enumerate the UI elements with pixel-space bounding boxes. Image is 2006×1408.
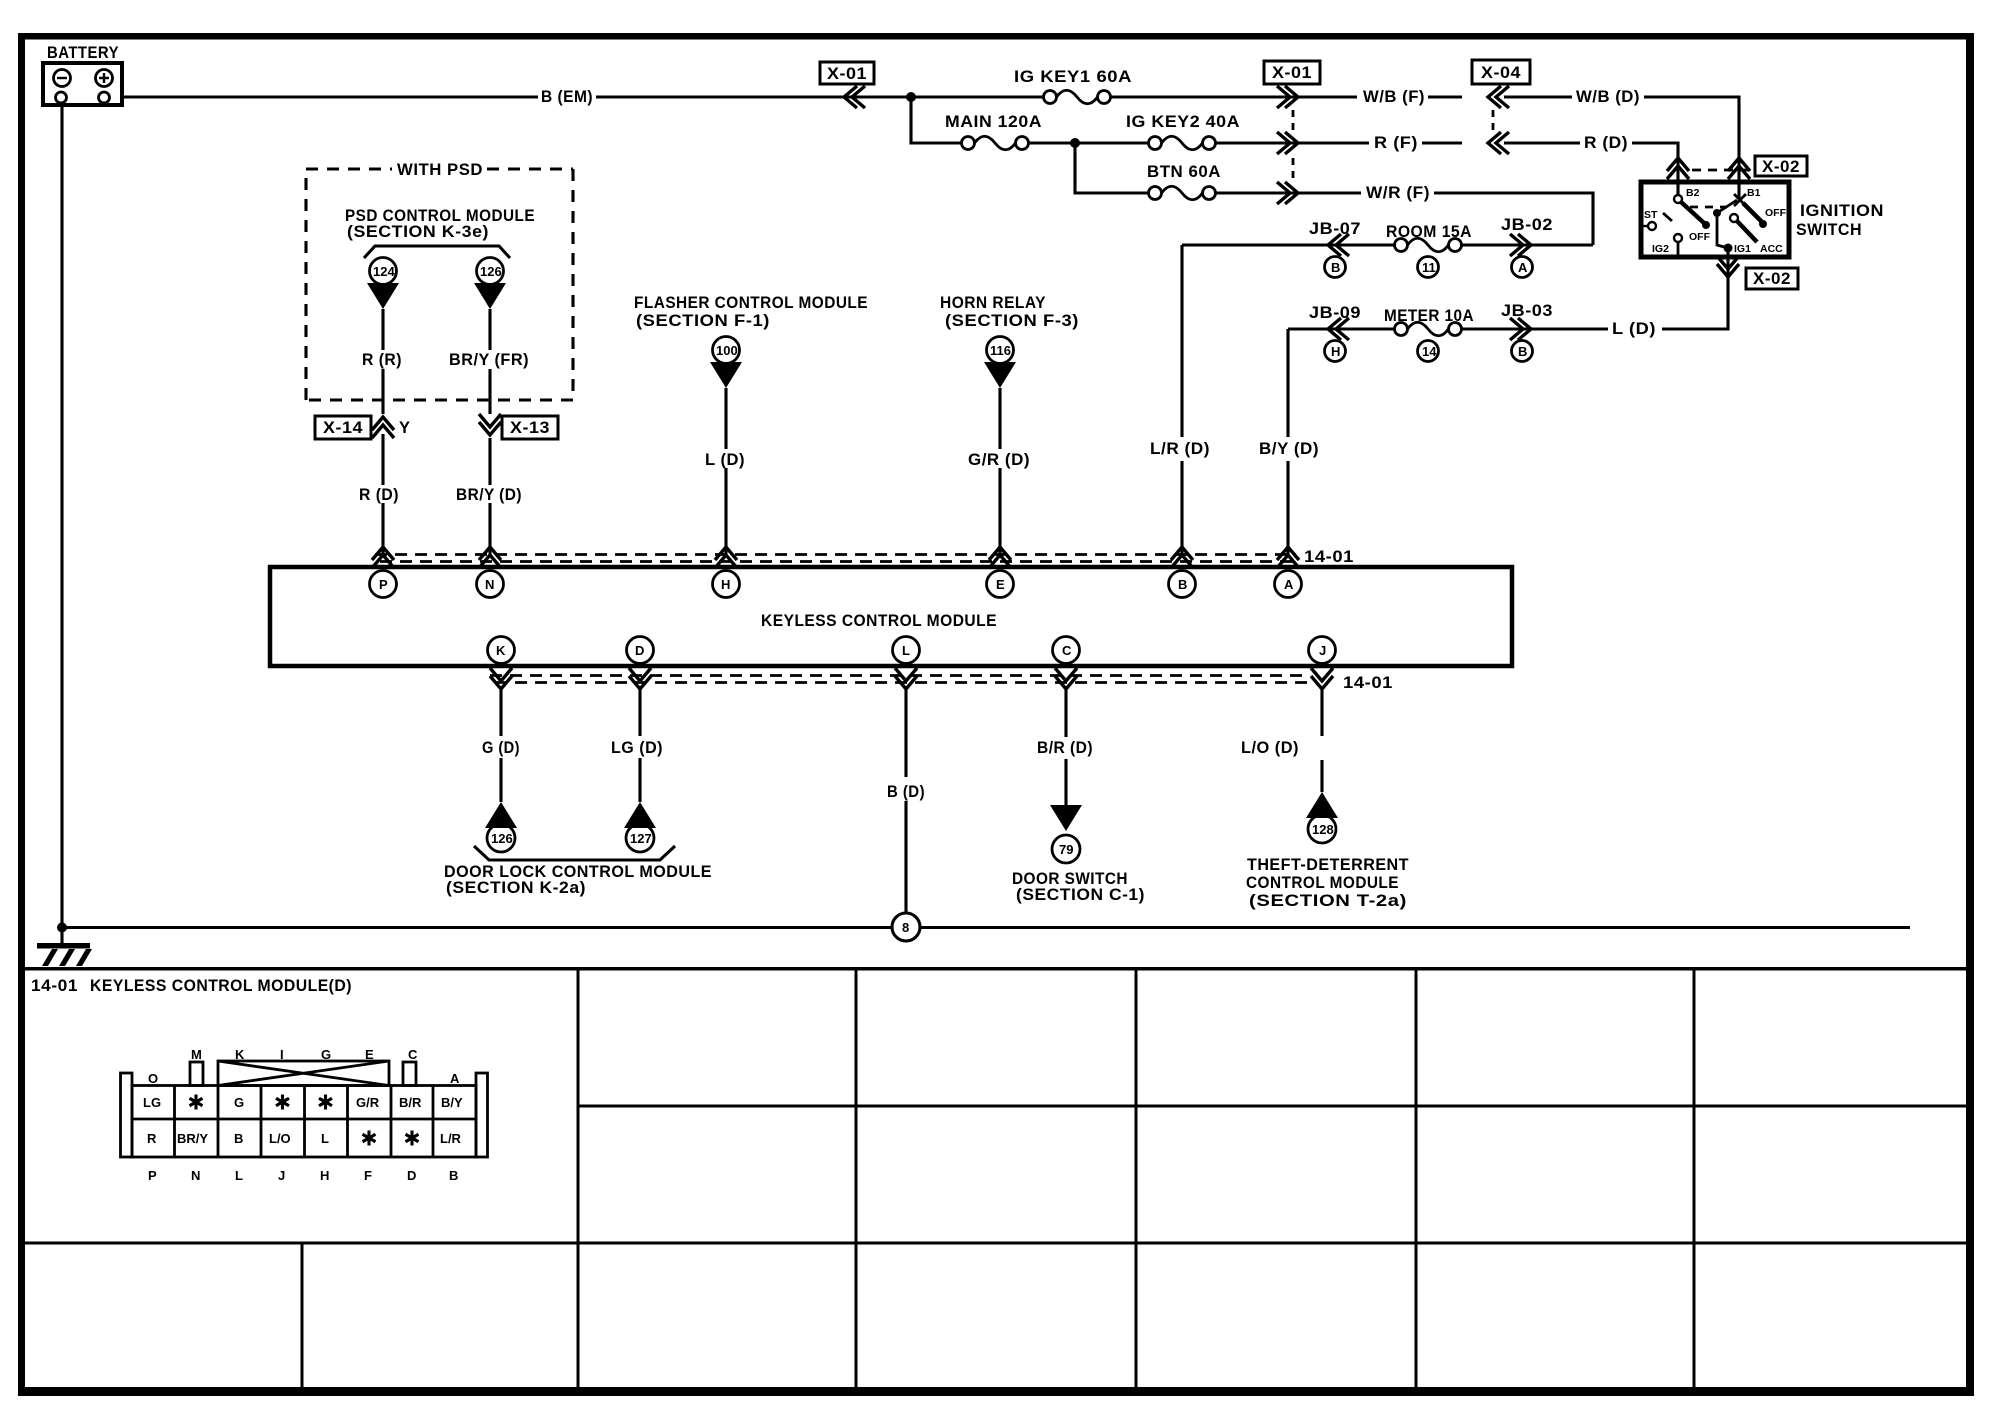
svg-text:R (F): R (F): [1374, 134, 1418, 152]
svg-text:X-04: X-04: [1481, 64, 1521, 82]
svg-text:B: B: [1331, 260, 1340, 275]
svg-text:E: E: [996, 577, 1005, 592]
svg-text:N: N: [485, 577, 494, 592]
svg-text:J: J: [278, 1168, 285, 1183]
svg-text:SWITCH: SWITCH: [1796, 221, 1862, 239]
svg-text:BATTERY: BATTERY: [47, 44, 119, 62]
pin C: [1053, 637, 1080, 664]
svg-text:IG KEY1 60A: IG KEY1 60A: [1014, 68, 1132, 86]
pin J: [1309, 637, 1336, 664]
fuse MAIN 120A: [941, 113, 1075, 151]
connector 14-01 chevron pin J: [1311, 668, 1333, 689]
svg-text:(SECTION F-3): (SECTION F-3): [945, 312, 1079, 330]
svg-text:K: K: [496, 643, 506, 658]
svg-text:B: B: [1178, 577, 1187, 592]
svg-text:W/B (F): W/B (F): [1363, 88, 1425, 106]
svg-text:W/R (F): W/R (F): [1366, 184, 1430, 202]
svg-text:11: 11: [1422, 260, 1436, 275]
pin D: [627, 637, 654, 664]
svg-text:IG2: IG2: [1652, 243, 1669, 255]
svg-text:JB-09: JB-09: [1309, 304, 1361, 322]
svg-text:JB-07: JB-07: [1309, 220, 1361, 238]
connector 14-01 chevron pin E: [989, 547, 1011, 568]
svg-text:BTN 60A: BTN 60A: [1147, 163, 1221, 181]
wire R(D) to keyless pin P: [381, 434, 384, 556]
connector 14-01 lower dashed line: [490, 676, 1310, 683]
pin H: [713, 571, 740, 598]
svg-text:B/R (D): B/R (D): [1037, 739, 1093, 757]
svg-text:JB-02: JB-02: [1501, 216, 1553, 234]
junction JB-07: [1309, 220, 1361, 278]
connector pin letters (top): [148, 1047, 460, 1086]
connector 14-01 chevron pin D: [629, 668, 651, 689]
connector 14-01 chevron pin L: [895, 668, 917, 689]
connector X-01 (engine side): [820, 62, 874, 108]
svg-text:G/R: G/R: [356, 1095, 380, 1110]
svg-text:P: P: [379, 577, 388, 592]
svg-text:(SECTION K-3e): (SECTION K-3e): [347, 223, 489, 241]
svg-text:H: H: [320, 1168, 329, 1183]
svg-text:L: L: [321, 1131, 329, 1146]
connector X-01 (dash side) with 3-wire chevrons: [1264, 61, 1320, 204]
svg-text:B (D): B (D): [887, 783, 925, 801]
connector X-14: [315, 416, 411, 439]
pin B: [1169, 571, 1196, 598]
wire G/R(D) to keyless pin E: [998, 388, 1001, 556]
svg-text:JB-03: JB-03: [1501, 302, 1553, 320]
svg-text:14-01: 14-01: [1343, 674, 1393, 692]
svg-text:C: C: [408, 1047, 418, 1062]
pin A: [1275, 571, 1302, 598]
svg-text:R (D): R (D): [359, 486, 399, 504]
svg-text:OFF: OFF: [1689, 231, 1711, 243]
svg-text:LG: LG: [143, 1095, 161, 1110]
arrow to 79: [1050, 805, 1082, 831]
svg-text:KEYLESS CONTROL MODULE(D): KEYLESS CONTROL MODULE(D): [90, 977, 352, 995]
svg-text:A: A: [1284, 577, 1294, 592]
connector X-04: [1472, 60, 1580, 154]
svg-text:K: K: [235, 1047, 245, 1062]
wire G(D) from pin K to door lock module: [499, 688, 502, 802]
junction JB-03: [1501, 302, 1553, 362]
connector pin letters (bottom): [148, 1168, 458, 1183]
keyless control module box: [270, 567, 1512, 666]
svg-text:79: 79: [1059, 842, 1073, 857]
wire R(D) to ignition B2: [1632, 143, 1678, 196]
svg-text:B: B: [449, 1168, 458, 1183]
svg-text:F: F: [364, 1168, 372, 1183]
svg-text:J: J: [1319, 643, 1326, 658]
svg-text:8: 8: [902, 920, 909, 935]
PSD control module P-06: [345, 207, 535, 309]
svg-text:MAIN 120A: MAIN 120A: [945, 113, 1042, 131]
svg-text:BR/Y: BR/Y: [177, 1131, 208, 1146]
page ref circle 126 (door lock): [487, 824, 515, 852]
pin L: [893, 637, 920, 664]
svg-text:L/O: L/O: [269, 1131, 291, 1146]
fuse METER 10A: [1384, 307, 1474, 362]
svg-text:BR/Y (FR): BR/Y (FR): [449, 351, 529, 369]
horn relay: [940, 294, 1079, 388]
wire W/B(D) to ignition B1: [1644, 97, 1739, 199]
svg-text:Y: Y: [399, 419, 411, 437]
svg-text:L: L: [235, 1168, 243, 1183]
connector pinout 14-01 drawing: [121, 1061, 488, 1157]
arrow from 116: [984, 362, 1016, 388]
connector 14-01 chevron pin N: [479, 547, 501, 568]
svg-text:X-02: X-02: [1762, 158, 1800, 176]
svg-text:100: 100: [716, 343, 738, 358]
svg-text:P: P: [148, 1168, 157, 1183]
svg-text:W/B (D): W/B (D): [1576, 88, 1640, 106]
svg-text:IG KEY2 40A: IG KEY2 40A: [1126, 113, 1240, 131]
svg-text:R (R): R (R): [362, 351, 402, 369]
junction JB-02: [1501, 216, 1553, 278]
svg-text:B/Y (D): B/Y (D): [1259, 440, 1319, 458]
wire L/O(D) from pin J to theft deterrent: [1320, 688, 1323, 792]
svg-text:H: H: [1331, 344, 1340, 359]
svg-text:N: N: [191, 1168, 200, 1183]
svg-text:L: L: [902, 643, 910, 658]
svg-text:C: C: [1062, 643, 1072, 658]
left ear: [121, 1073, 133, 1157]
svg-text:HORN RELAY: HORN RELAY: [940, 294, 1046, 312]
connector 14-01 chevron pin K: [490, 668, 512, 689]
wire R(F) to X-04: [1422, 141, 1462, 144]
pin E: [987, 571, 1014, 598]
svg-text:L (D): L (D): [705, 451, 745, 469]
svg-text:B: B: [1518, 344, 1527, 359]
page ref circle 124: [370, 258, 397, 285]
wire L(D) to keyless pin H: [724, 388, 727, 556]
svg-text:R (D): R (D): [1584, 134, 1628, 152]
key tab M: [190, 1062, 203, 1086]
right ear: [476, 1073, 488, 1157]
svg-text:X-02: X-02: [1753, 270, 1791, 288]
connector wire colours row 1: [143, 1095, 463, 1111]
page ref circle 100: [713, 337, 740, 364]
svg-text:B (EM): B (EM): [541, 88, 593, 106]
bottom reference grid: [21, 968, 1970, 1390]
svg-text:WITH PSD: WITH PSD: [397, 161, 483, 179]
wire BR/Y(FR) from PSD 126: [488, 309, 491, 414]
svg-text:B2: B2: [1686, 187, 1700, 199]
svg-text:X-01: X-01: [1272, 64, 1312, 82]
svg-text:THEFT-DETERRENT: THEFT-DETERRENT: [1247, 856, 1409, 874]
svg-text:(SECTION C-1): (SECTION C-1): [1016, 886, 1145, 904]
svg-text:X-01: X-01: [827, 65, 867, 83]
arrow from 100: [710, 362, 742, 388]
junction JB-09: [1309, 304, 1361, 362]
arrow to 128: [1306, 792, 1338, 818]
connector 14-01 upper dashed line: [375, 555, 1296, 562]
arrow from 126: [474, 283, 506, 309]
fuse IG KEY1 60A: [905, 68, 1357, 105]
svg-text:BR/Y (D): BR/Y (D): [456, 486, 522, 504]
svg-text:OFF: OFF: [1765, 207, 1787, 219]
pin K: [488, 637, 515, 664]
page ref circle 128: [1308, 815, 1336, 843]
svg-text:L/R (D): L/R (D): [1150, 440, 1210, 458]
wire B(D) from pin L to ground: [904, 688, 907, 913]
svg-text:ST: ST: [1644, 209, 1658, 221]
connector 14-01 chevron pin P: [372, 547, 394, 568]
svg-text:I: I: [280, 1047, 284, 1062]
svg-text:124: 124: [373, 264, 395, 279]
pin N: [477, 571, 504, 598]
svg-text:B: B: [234, 1131, 243, 1146]
wire W/B(F) to X-04: [1428, 95, 1462, 98]
svg-text:R: R: [147, 1131, 157, 1146]
pin P: [370, 571, 397, 598]
svg-text:116: 116: [990, 343, 1011, 358]
wire W/R(F) elbow down to ROOM feed: [1434, 193, 1593, 245]
svg-text:M: M: [191, 1047, 202, 1062]
svg-text:L/R: L/R: [440, 1131, 462, 1146]
svg-text:D: D: [407, 1168, 416, 1183]
PSD dashed option box: [306, 169, 573, 400]
node junction MAIN to IG KEY2 / BTN: [1070, 138, 1080, 148]
ground symbol: [37, 927, 92, 966]
svg-text:L (D): L (D): [1612, 320, 1656, 338]
wire ignition IG1 down through X-02: [1662, 252, 1728, 329]
ignition switch: [1641, 182, 1789, 257]
key tab C: [403, 1062, 416, 1086]
ground rail wire: [62, 926, 1910, 929]
wire B/Y(D) down to keyless pin A: [1286, 329, 1289, 556]
svg-text:127: 127: [630, 831, 652, 846]
wire BR/Y(D) to keyless pin N: [488, 438, 491, 556]
connector 14-01 chevron pin B: [1171, 547, 1193, 568]
svg-text:(SECTION F-1): (SECTION F-1): [636, 312, 770, 330]
arrow to 127: [624, 802, 656, 828]
page ref circle 79: [1052, 835, 1080, 863]
connector body rows: [132, 1086, 476, 1158]
connector 14-01 chevron pin A: [1277, 547, 1299, 568]
connector X-02 (lower): [1717, 256, 1798, 289]
fuse IG KEY2 40A: [1075, 113, 1369, 151]
node junction at B(EM) split: [906, 92, 916, 102]
wire R(R) from PSD 124: [381, 309, 384, 414]
flasher control module: [634, 294, 868, 388]
svg-text:14-01: 14-01: [31, 977, 78, 995]
svg-text:G: G: [234, 1095, 244, 1110]
svg-text:IG1: IG1: [1734, 243, 1751, 255]
svg-text:126: 126: [491, 831, 513, 846]
arrow from 124: [367, 283, 399, 309]
page ref circle 127: [626, 824, 654, 852]
svg-text:L/O (D): L/O (D): [1241, 739, 1299, 757]
connector 14-01 chevron pin H: [715, 547, 737, 568]
svg-text:14-01: 14-01: [1304, 548, 1354, 566]
wire METER 10A row: [1288, 327, 1608, 330]
wire junction down to MAIN feed: [911, 97, 941, 143]
svg-text:G (D): G (D): [482, 739, 520, 757]
svg-text:A: A: [1518, 260, 1528, 275]
svg-text:X-13: X-13: [510, 419, 550, 437]
svg-text:E: E: [365, 1047, 374, 1062]
wire L/R(D) down to keyless pin B: [1180, 245, 1183, 556]
wire ROOM 15A row: JB-07 to W/R(F) elbow: [1182, 243, 1593, 246]
arrow to 126: [485, 802, 517, 828]
svg-text:A: A: [450, 1071, 460, 1086]
svg-text:126: 126: [480, 264, 502, 279]
wire B/R(D) from pin C to door switch: [1064, 688, 1067, 806]
svg-text:ACC: ACC: [1760, 243, 1783, 255]
wire battery negative down to ground rail: [60, 105, 63, 928]
svg-text:B/R: B/R: [399, 1095, 422, 1110]
page ref circle 126: [477, 258, 504, 285]
page ref circle 116: [987, 337, 1014, 364]
svg-text:D: D: [635, 643, 644, 658]
fuse BTN 60A: [1121, 163, 1361, 201]
wire B(EM) from battery to X-01: [122, 95, 905, 98]
svg-text:KEYLESS CONTROL MODULE: KEYLESS CONTROL MODULE: [761, 612, 997, 630]
svg-text:CONTROL MODULE: CONTROL MODULE: [1246, 874, 1399, 892]
svg-text:B/Y: B/Y: [441, 1095, 463, 1110]
wire LG(D) from pin D to door lock module: [638, 688, 641, 802]
keyed top box with cross: [218, 1061, 389, 1086]
node junction at battery ground: [57, 923, 67, 933]
battery B-01: [43, 44, 122, 105]
svg-text:128: 128: [1312, 822, 1334, 837]
svg-text:(SECTION K-2a): (SECTION K-2a): [446, 879, 586, 897]
svg-text:G: G: [321, 1047, 331, 1062]
svg-text:O: O: [148, 1071, 158, 1086]
svg-text:(SECTION T-2a): (SECTION T-2a): [1249, 892, 1407, 910]
svg-text:14: 14: [1422, 344, 1437, 359]
fuse ROOM 15A: [1386, 223, 1472, 278]
svg-text:X-14: X-14: [323, 419, 363, 437]
connector wire colours row 2: [147, 1131, 462, 1147]
connector 14-01 chevron pin C: [1055, 668, 1077, 689]
connector X-13: [479, 414, 558, 439]
connector X-02 (upper, ignition switch): [1667, 156, 1807, 179]
svg-text:LG (D): LG (D): [611, 739, 663, 757]
svg-text:IGNITION: IGNITION: [1800, 202, 1884, 220]
svg-text:B1: B1: [1747, 187, 1761, 199]
brace under door lock refs: [474, 846, 675, 860]
svg-text:H: H: [721, 577, 730, 592]
node 8 (ground joint): [892, 913, 920, 941]
svg-text:FLASHER CONTROL MODULE: FLASHER CONTROL MODULE: [634, 294, 868, 312]
brace over PSD pins: [364, 246, 510, 258]
svg-text:G/R (D): G/R (D): [968, 451, 1030, 469]
